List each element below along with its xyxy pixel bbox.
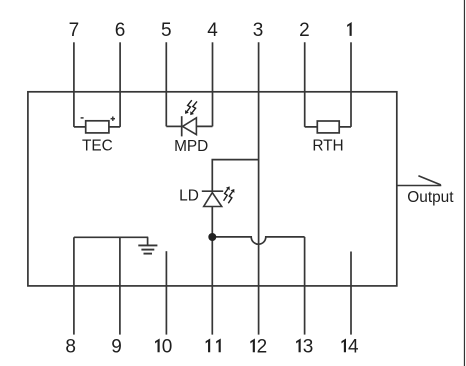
svg-text:LD: LD	[179, 188, 199, 205]
svg-text:Output: Output	[407, 189, 454, 206]
svg-text:2: 2	[299, 20, 310, 41]
svg-text:6: 6	[115, 20, 126, 41]
svg-text:4: 4	[348, 336, 359, 357]
svg-text:RTH: RTH	[312, 138, 343, 155]
svg-text:8: 8	[65, 336, 76, 357]
svg-text:TEC: TEC	[82, 138, 113, 155]
svg-text:0: 0	[162, 336, 173, 357]
svg-text:7: 7	[69, 20, 80, 41]
svg-text:3: 3	[253, 20, 264, 41]
svg-text:2: 2	[257, 336, 268, 357]
svg-text:MPD: MPD	[174, 138, 208, 155]
svg-text:4: 4	[207, 20, 218, 41]
svg-text:9: 9	[111, 336, 122, 357]
svg-text:5: 5	[161, 20, 172, 41]
svg-text:3: 3	[303, 336, 314, 357]
